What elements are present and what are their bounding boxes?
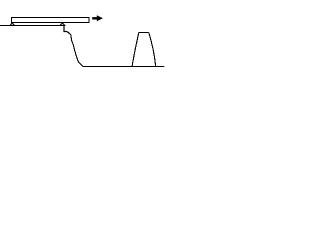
- cliff edge step: [64, 26, 67, 32]
- lower ground line: [83, 66, 165, 68]
- hill top: [139, 32, 149, 34]
- left support triangle: [10, 23, 14, 26]
- cliff slope: [67, 32, 83, 67]
- table surface line: [0, 25, 64, 27]
- hill right slope: [149, 33, 156, 67]
- plank: [12, 18, 90, 23]
- force arrow: [92, 15, 103, 21]
- right support triangle: [60, 23, 65, 25]
- hill left slope: [132, 33, 139, 67]
